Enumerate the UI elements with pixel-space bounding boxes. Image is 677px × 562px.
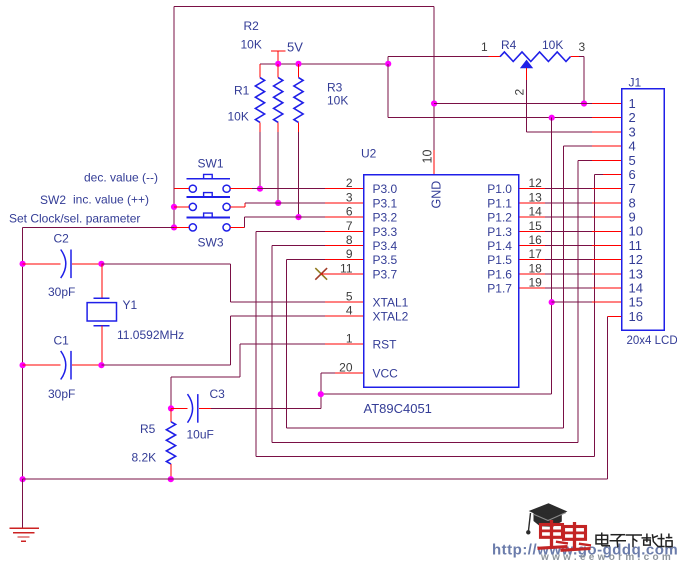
- svg-text:inc. value (++): inc. value (++): [73, 193, 149, 207]
- svg-text:16: 16: [629, 309, 643, 324]
- node 5V junction R2 top: [275, 61, 281, 67]
- wire 5V rail: [260, 63, 388, 65]
- node junction C2 left: [20, 261, 26, 267]
- pin 11 label P3.7: [340, 261, 397, 281]
- power 5V symbol: [271, 51, 286, 64]
- svg-text:8: 8: [346, 233, 353, 247]
- wire R4 wiper down to J1 pin3 row: [527, 68, 622, 132]
- pin 9 label P3.5: [346, 247, 398, 267]
- pin 3 label P3.1: [346, 190, 398, 210]
- pin number R4 pin3: [579, 40, 586, 54]
- label R5: [140, 422, 156, 436]
- pin label GND (rotated): [430, 181, 444, 209]
- node junction ground rail left: [20, 476, 26, 482]
- label R4 value 10K: [542, 38, 563, 52]
- pin 1 label RST: [346, 332, 397, 352]
- node 5V junction R3 top: [295, 61, 301, 67]
- wire SW1 to U2 P3.0: [230, 188, 363, 190]
- svg-text:R3: R3: [327, 81, 343, 95]
- svg-text:8.2K: 8.2K: [132, 451, 157, 465]
- wire P3.5 to J1 pin4 (wraps bottom): [286, 146, 621, 428]
- wire U2 P1.5 to J1 pin12: [519, 259, 622, 261]
- wire P3.3 to J1 pin6 (wraps bottom): [256, 174, 621, 456]
- label 5V: [287, 40, 303, 55]
- label SW3: [198, 236, 224, 250]
- svg-text:P1.7: P1.7: [487, 282, 512, 296]
- svg-text:dec. value (--): dec. value (--): [84, 171, 158, 185]
- node junction SW2 left: [171, 204, 177, 210]
- svg-text:www.eeworm.com: www.eeworm.com: [540, 552, 674, 562]
- label R2 value 10K: [241, 38, 262, 52]
- wire J1 pin16 to ground rail: [608, 316, 622, 479]
- wire GND left vertical: [22, 227, 24, 479]
- node junction R5/ground rail: [168, 476, 174, 482]
- svg-text:1: 1: [481, 40, 488, 54]
- wire Y1 top stub: [101, 264, 103, 298]
- label R3 value 10K: [327, 94, 348, 108]
- ground symbol: [10, 479, 39, 541]
- svg-text:R1: R1: [234, 84, 250, 98]
- no-connect X on U2 pin 11: [315, 268, 363, 280]
- label 20x4 LCD: [627, 335, 677, 347]
- svg-text:11.0592MHz: 11.0592MHz: [117, 328, 184, 342]
- wire left rail to SW1: [174, 188, 189, 190]
- svg-text:2: 2: [513, 89, 527, 96]
- wire SW3 to U2 P3.2: [230, 217, 363, 227]
- wire C3 left: [171, 407, 187, 409]
- svg-text:18: 18: [529, 261, 543, 275]
- wire R3 bottom to P3.2 row: [298, 132, 300, 217]
- node junction C1/Y1/XTAL2: [98, 362, 104, 368]
- svg-text:P1.4: P1.4: [487, 239, 512, 253]
- svg-text:19: 19: [529, 276, 543, 290]
- pin 16 label P1.4: [487, 233, 542, 253]
- node junction R4pin3/J1pin1: [581, 100, 587, 106]
- svg-text:10K: 10K: [241, 38, 262, 52]
- connector J1 pin numbers 1-16: [629, 96, 643, 324]
- svg-text:14: 14: [529, 205, 543, 219]
- pin 5 label XTAL1: [346, 290, 409, 310]
- svg-text:3: 3: [346, 190, 353, 204]
- wire GND-net right vertical to U2 pin 10: [433, 7, 435, 175]
- label C2: [54, 232, 70, 246]
- label J1: [629, 76, 642, 90]
- svg-text:10: 10: [629, 224, 643, 239]
- resistor R2: [274, 64, 283, 132]
- wire GND-net top edge of loop: [174, 6, 434, 8]
- svg-text:13: 13: [629, 266, 643, 281]
- svg-text:14: 14: [629, 280, 643, 295]
- wire C2 left: [23, 263, 61, 265]
- svg-text:VCC: VCC: [373, 367, 399, 381]
- wire C3 right to VCC node: [199, 394, 321, 408]
- pin 7 label P3.3: [346, 219, 398, 239]
- capacitor C2: [61, 250, 71, 279]
- svg-text:5: 5: [629, 153, 636, 168]
- svg-text:P1.5: P1.5: [487, 253, 512, 267]
- wire GND branch left of SW3: [23, 226, 174, 228]
- switch SW2: [187, 193, 231, 211]
- svg-text:30pF: 30pF: [48, 387, 75, 401]
- svg-text:10K: 10K: [542, 38, 563, 52]
- wire XTAL2 net: [101, 316, 363, 365]
- wire U2 P1.2 to J1 pin9: [519, 216, 622, 218]
- label dec. value: [84, 171, 158, 185]
- svg-text:P3.7: P3.7: [373, 267, 398, 281]
- pin 14 label P1.2: [487, 205, 542, 225]
- label R4: [501, 38, 517, 52]
- capacitor C3: [188, 394, 198, 423]
- node junction VCC/C3: [318, 391, 324, 397]
- wire U2 P1.3 to J1 pin10: [519, 230, 622, 232]
- svg-text:RST: RST: [373, 338, 398, 352]
- svg-text:R4: R4: [501, 38, 517, 52]
- label C2 value 30pF: [48, 285, 75, 299]
- svg-text:C3: C3: [210, 387, 226, 401]
- node junction R1/P3.0: [257, 186, 263, 192]
- wire 5V to R4 pin 1: [388, 57, 500, 64]
- svg-text:P1.0: P1.0: [487, 182, 512, 196]
- label C3 value 10uF: [187, 428, 214, 442]
- pin 13 label P1.1: [487, 190, 542, 210]
- svg-text:P3.3: P3.3: [373, 225, 398, 239]
- node junction R3/P3.2: [295, 214, 301, 220]
- wire ground rail: [23, 478, 608, 480]
- svg-text:7: 7: [346, 219, 353, 233]
- svg-text:12: 12: [529, 176, 543, 190]
- pin 17 label P1.5: [487, 247, 542, 267]
- svg-text:P3.1: P3.1: [373, 196, 398, 210]
- capacitor C1: [61, 351, 71, 380]
- pin number R4 pin1: [481, 40, 488, 54]
- wire U2 P1.6 to J1 pin13: [519, 273, 622, 275]
- wire Y1 bottom stub: [101, 326, 103, 366]
- svg-text:Y1: Y1: [123, 298, 138, 312]
- node junction VCC/J1 pin2: [549, 115, 555, 121]
- wire U2 P1.0 to J1 pin7: [519, 188, 622, 190]
- label C1 value 30pF: [48, 387, 75, 401]
- watermark site logo: [492, 503, 677, 562]
- node junction RST/C3/R5: [168, 405, 174, 411]
- label U2: [361, 147, 377, 161]
- label Y1 value 11.0592MHz: [117, 328, 184, 342]
- node GND junction at J1 pin1 row: [431, 100, 437, 106]
- svg-text:30pF: 30pF: [48, 285, 75, 299]
- label SW1: [198, 157, 224, 171]
- wire VCC to J1 pin15: [552, 301, 622, 303]
- pin 4 label XTAL2: [346, 304, 409, 324]
- svg-text:10uF: 10uF: [187, 428, 214, 442]
- wire SW2 to U2 P3.1: [230, 203, 363, 207]
- op-amp/IC U2 body (AT89C4051): [364, 175, 519, 388]
- svg-text:1: 1: [346, 332, 353, 346]
- pin 2 label P3.0: [346, 176, 398, 196]
- svg-text:7: 7: [629, 181, 636, 196]
- pin 18 label P1.6: [487, 261, 542, 281]
- wire C1 right to junction: [72, 364, 102, 366]
- svg-text:5V: 5V: [287, 40, 303, 55]
- svg-text:9: 9: [629, 210, 636, 225]
- svg-text:10K: 10K: [228, 110, 249, 124]
- pin 12 label P1.0: [487, 176, 542, 196]
- svg-text:P3.5: P3.5: [373, 253, 398, 267]
- wire C2 right to junction: [72, 263, 102, 265]
- crystal Y1: [87, 298, 116, 326]
- svg-text:R2: R2: [244, 19, 260, 33]
- pin 6 label P3.2: [346, 205, 398, 225]
- svg-text:1: 1: [629, 96, 636, 111]
- svg-text:P3.0: P3.0: [373, 182, 398, 196]
- wire U2 P1.1 to J1 pin8: [519, 202, 622, 204]
- svg-text:P3.2: P3.2: [373, 211, 398, 225]
- resistor R5: [166, 408, 175, 479]
- svg-text:3: 3: [579, 40, 586, 54]
- label R5 value 8.2K: [132, 451, 157, 465]
- svg-text:Set Clock/sel. parameter: Set Clock/sel. parameter: [9, 212, 140, 226]
- wire left rail to SW2: [174, 206, 189, 208]
- pin number 10 (rotated): [421, 150, 435, 164]
- svg-text:9: 9: [346, 247, 353, 261]
- svg-text:P1.2: P1.2: [487, 211, 512, 225]
- svg-text:4: 4: [629, 139, 636, 154]
- svg-text:XTAL2: XTAL2: [373, 310, 409, 324]
- svg-text:8: 8: [629, 195, 636, 210]
- wire U2 P1.4 to J1 pin11: [519, 244, 622, 246]
- svg-text:5: 5: [346, 290, 353, 304]
- svg-text:13: 13: [529, 190, 543, 204]
- pin 8 label P3.4: [346, 233, 398, 253]
- wire XTAL1 net: [101, 264, 363, 302]
- svg-text:10: 10: [421, 150, 435, 164]
- label R3: [327, 81, 343, 95]
- svg-text:P3.4: P3.4: [373, 239, 398, 253]
- svg-text:6: 6: [629, 167, 636, 182]
- svg-text:P1.1: P1.1: [487, 196, 512, 210]
- svg-text:2: 2: [629, 110, 636, 125]
- wire RST net: [171, 344, 364, 408]
- wire left rail to SW3: [174, 226, 189, 228]
- svg-text:P1.6: P1.6: [487, 267, 512, 281]
- svg-text:C2: C2: [54, 232, 70, 246]
- switch SW1: [187, 174, 231, 192]
- node junction VCC/J1 pin15: [549, 299, 555, 305]
- switch SW3: [187, 213, 231, 231]
- label Y1: [123, 298, 138, 312]
- svg-text:GND: GND: [430, 181, 444, 209]
- svg-text:C1: C1: [54, 334, 70, 348]
- svg-text:XTAL1: XTAL1: [373, 296, 409, 310]
- label Set Clock: [9, 212, 140, 226]
- wire R1 bottom to P3.0 row: [259, 132, 261, 189]
- wire GND-net left vertical (loop left edge): [173, 7, 175, 228]
- svg-text:15: 15: [529, 219, 543, 233]
- svg-text:J1: J1: [629, 76, 642, 90]
- svg-text:11: 11: [340, 261, 353, 275]
- potentiometer R4: [500, 52, 579, 68]
- svg-text:20: 20: [339, 361, 353, 375]
- wire 5V down to J1 pin2 row: [388, 64, 621, 118]
- label SW2: [40, 193, 66, 207]
- pin 15 label P1.3: [487, 219, 542, 239]
- node 5V junction at x388: [385, 61, 391, 67]
- svg-text:U2: U2: [361, 147, 377, 161]
- wire R4 pin3 down to J1 pin1 row: [579, 57, 584, 104]
- wire R2 bottom to P3.1 row: [277, 132, 279, 203]
- label C3: [210, 387, 226, 401]
- wire U2 P1.7 to J1 pin14: [519, 287, 622, 289]
- svg-text:16: 16: [529, 233, 543, 247]
- resistor R3: [294, 64, 303, 132]
- resistor R1: [255, 64, 264, 132]
- node junction SW3 left: [171, 224, 177, 230]
- wire VCC vertical right of U2: [551, 118, 553, 395]
- svg-text:SW2: SW2: [40, 193, 66, 207]
- svg-text:SW3: SW3: [198, 236, 224, 250]
- node junction R2/P3.1: [275, 200, 281, 206]
- wire C1 left: [23, 364, 61, 366]
- wire GND to J1 pin1: [434, 103, 621, 105]
- wire VCC net: [321, 373, 552, 394]
- svg-text:15: 15: [629, 295, 643, 310]
- label R2: [244, 19, 260, 33]
- pin 20 label VCC: [339, 361, 398, 381]
- svg-text:SW1: SW1: [198, 157, 224, 171]
- node junction C2/Y1/XTAL1: [98, 261, 104, 267]
- wire P3.4 to J1 pin5 (wraps bottom): [272, 160, 622, 442]
- label R1 value 10K: [228, 110, 249, 124]
- svg-text:6: 6: [346, 205, 353, 219]
- label AT89C4051: [364, 401, 432, 416]
- svg-text:3: 3: [629, 124, 636, 139]
- svg-text:20x4 LCD: 20x4 LCD: [627, 335, 677, 347]
- label C1: [54, 334, 70, 348]
- connector J1 body: [622, 89, 665, 331]
- svg-text:12: 12: [629, 252, 643, 267]
- svg-text:AT89C4051: AT89C4051: [364, 401, 432, 416]
- svg-text:17: 17: [529, 247, 543, 261]
- pin 19 label P1.7: [487, 276, 542, 296]
- svg-text:P1.3: P1.3: [487, 225, 512, 239]
- svg-text:R5: R5: [140, 422, 156, 436]
- pin number R4 pin2 (rotated): [513, 89, 527, 96]
- label inc. value: [73, 193, 149, 207]
- svg-text:10K: 10K: [327, 94, 348, 108]
- svg-text:4: 4: [346, 304, 353, 318]
- svg-text:11: 11: [629, 238, 643, 253]
- svg-text:2: 2: [346, 176, 353, 190]
- node junction C1 left: [20, 362, 26, 368]
- label R1: [234, 84, 250, 98]
